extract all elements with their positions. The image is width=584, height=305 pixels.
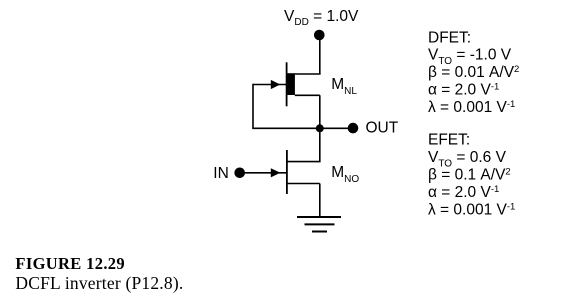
svg-text:DCFL inverter (P12.8).: DCFL inverter (P12.8). (15, 273, 183, 293)
terminal IN (234, 168, 245, 179)
wire MNL drain (295, 73, 321, 75)
wire MNO source to ground (287, 184, 320, 218)
terminal VDD (314, 30, 325, 41)
svg-text:OUT: OUT (366, 119, 399, 136)
svg-text:α = 2.0 V-1: α = 2.0 V-1 (428, 184, 499, 201)
transistor MNO (enhancement FET) (271, 150, 287, 194)
wire IN to MNO gate (240, 172, 286, 174)
svg-text:IN: IN (213, 165, 229, 182)
svg-text:λ = 0.001 V-1: λ = 0.001 V-1 (428, 202, 515, 219)
wire MNL source to node OUT (295, 95, 320, 128)
terminal OUT (348, 123, 359, 134)
wire gate feedback to node OUT (253, 84, 320, 129)
EFET parameters annotation (428, 132, 515, 219)
transistor MNL (depletion FET) (271, 62, 295, 106)
svg-text:DFET:: DFET: (428, 29, 471, 46)
svg-text:λ = 0.001 V-1: λ = 0.001 V-1 (428, 99, 515, 116)
node OUT junction (316, 124, 324, 132)
wire node OUT to terminal (320, 127, 352, 129)
wire node OUT to MNO drain (287, 128, 320, 161)
svg-text:β = 0.1 A/V2: β = 0.1 A/V2 (428, 167, 511, 184)
DFET parameters annotation (428, 29, 519, 116)
ground (297, 217, 341, 232)
svg-text:β = 0.01 A/V2: β = 0.01 A/V2 (428, 64, 519, 81)
svg-text:FIGURE 12.29: FIGURE 12.29 (15, 254, 125, 273)
svg-text:EFET:: EFET: (428, 132, 470, 149)
svg-text:α = 2.0 V-1: α = 2.0 V-1 (428, 82, 499, 99)
wire VDD to MNL drain (319, 36, 321, 74)
wire MNL gate (253, 84, 286, 86)
